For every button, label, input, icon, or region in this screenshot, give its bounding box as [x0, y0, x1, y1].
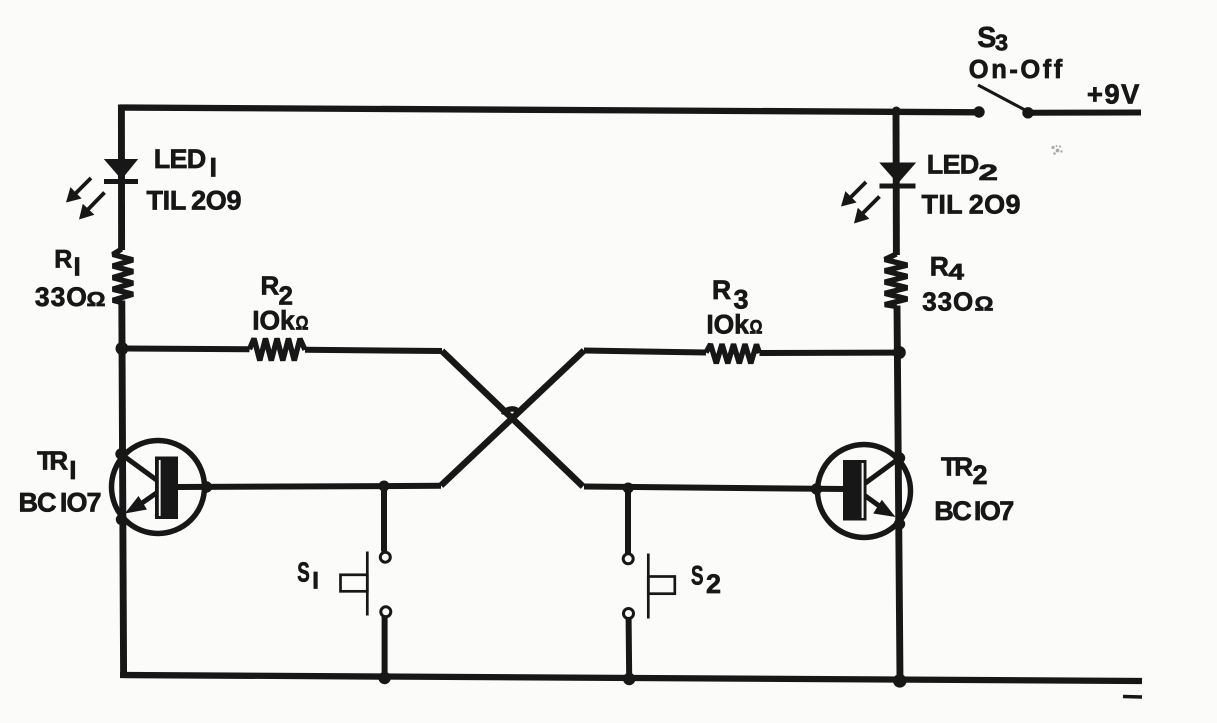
svg-text:I: I [74, 251, 81, 281]
svg-text:Ω: Ω [750, 318, 763, 339]
svg-text:2: 2 [706, 569, 721, 599]
svg-text:TR: TR [941, 452, 973, 482]
svg-text:I: I [69, 455, 76, 485]
svg-text:R: R [261, 271, 280, 301]
svg-text:BC IO7: BC IO7 [934, 496, 1014, 526]
svg-text:Ω: Ω [87, 289, 106, 311]
svg-text:R: R [54, 246, 72, 274]
svg-text:R: R [930, 252, 949, 282]
svg-text:TR: TR [37, 445, 68, 475]
svg-text:TIL 2O9: TIL 2O9 [922, 190, 1021, 220]
svg-text:R: R [712, 275, 731, 305]
svg-text:33O: 33O [35, 282, 87, 312]
svg-text:On-Off: On-Off [969, 56, 1063, 84]
svg-text:LED: LED [154, 144, 207, 174]
svg-text:Ω: Ω [975, 294, 994, 316]
svg-text:IOk: IOk [252, 306, 295, 336]
svg-text:S: S [297, 557, 310, 588]
svg-text:LED: LED [927, 150, 980, 180]
svg-text:BC IO7: BC IO7 [19, 488, 102, 518]
svg-text:33O: 33O [922, 287, 973, 317]
svg-text:2: 2 [979, 160, 999, 185]
svg-text:I: I [210, 153, 218, 183]
svg-text:S: S [691, 560, 704, 590]
svg-text:+9V: +9V [1087, 78, 1140, 109]
svg-text:4: 4 [949, 259, 965, 284]
svg-text:TIL 2O9: TIL 2O9 [147, 186, 242, 216]
svg-text:Ω: Ω [296, 314, 309, 335]
svg-text:3: 3 [995, 30, 1008, 56]
svg-text:I: I [312, 568, 319, 595]
svg-text:IOk: IOk [706, 310, 749, 340]
svg-text:S: S [977, 22, 996, 54]
svg-text:2: 2 [973, 460, 988, 490]
